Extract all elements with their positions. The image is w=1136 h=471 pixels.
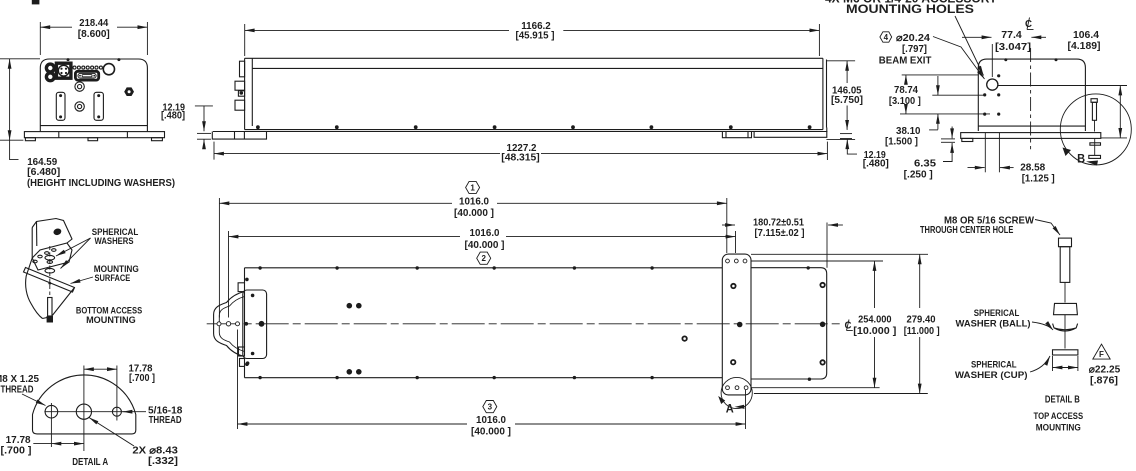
DETAIL A title (72, 457, 108, 468)
svg-text:254.000: 254.000 (858, 315, 892, 326)
mounting surface plate (iso) (24, 268, 75, 319)
screw dots along side view bottom (256, 125, 811, 129)
bottom access mounting label (76, 305, 142, 326)
connector: stacked BNC pair top-left (46, 64, 54, 81)
svg-text:SURFACE: SURFACE (95, 273, 131, 284)
dimension 1016.0 flag 1 (219, 181, 726, 317)
svg-text:77.4: 77.4 (1001, 30, 1022, 41)
dimension 106.4 (998, 30, 1127, 138)
base plate (beam view) (961, 133, 1101, 139)
washer foot (beam view) (962, 138, 973, 141)
svg-text:⌀22.25: ⌀22.25 (1089, 365, 1121, 376)
washers in detail B (1089, 139, 1101, 159)
svg-text:28.58: 28.58 (1020, 162, 1045, 173)
spherical washer cup (top access) (1053, 350, 1078, 355)
svg-text:THREAD: THREAD (149, 415, 182, 426)
svg-text:[4.189]: [4.189] (1068, 41, 1101, 52)
svg-text:BEAM EXIT: BEAM EXIT (879, 56, 932, 67)
detail A foot plate outline (33, 375, 136, 434)
2X dia 8.43 label (detail A) (89, 418, 178, 468)
left end view body (40, 59, 147, 131)
dimension 17.78 bottom (detail A) (1, 421, 84, 457)
top access mounting label (1034, 411, 1084, 433)
side view left foot block (212, 132, 266, 140)
svg-text:218.44: 218.44 (79, 18, 108, 29)
dimension 12.19 (side view right) (826, 138, 855, 140)
accessory holes label (top clipped line) (825, 0, 997, 16)
5/16-18 thread label (detail A) (123, 406, 183, 427)
field ring hole (682, 336, 686, 340)
svg-text:[45.915 ]: [45.915 ] (516, 31, 555, 42)
svg-text:DETAIL B: DETAIL B (1045, 394, 1080, 405)
D-sub connector (75, 71, 98, 80)
svg-text:MOUNTING: MOUNTING (1036, 423, 1081, 434)
svg-text:2: 2 (481, 254, 486, 263)
svg-text:[40.000 ]: [40.000 ] (465, 240, 505, 251)
svg-text:78.74: 78.74 (894, 85, 918, 96)
dimension 78.74 (889, 75, 990, 114)
svg-text:[.250 ]: [.250 ] (904, 170, 933, 181)
svg-text:MOUNTING: MOUNTING (86, 315, 136, 326)
side view right end block (754, 128, 827, 138)
large round port (103, 64, 114, 75)
leader from beam exit label (933, 37, 985, 80)
triangle F flag (1093, 344, 1110, 359)
CL symbol plan (845, 320, 853, 332)
svg-text:[40.000 ]: [40.000 ] (471, 426, 511, 437)
svg-text:1016.0: 1016.0 (476, 415, 506, 426)
svg-text:[11.000 ]: [11.000 ] (904, 326, 940, 337)
dimension 38.10 (885, 76, 986, 148)
screw dots on body top edge (67, 58, 121, 61)
plan centerline (207, 323, 843, 325)
svg-text:[.332]: [.332] (148, 456, 178, 467)
side view base plate rail (213, 131, 828, 133)
dimension 1016.0 flag 3 (238, 330, 746, 438)
svg-text:[8.600]: [8.600] (78, 29, 110, 40)
dimension 17.78 top (detail A) (84, 364, 155, 451)
svg-text:[3.047]: [3.047] (995, 42, 1031, 53)
spherical washer feet (left end view) (25, 138, 162, 141)
svg-text:106.4: 106.4 (1073, 30, 1099, 41)
svg-text:WASHERS: WASHERS (95, 236, 134, 247)
svg-text:[.480]: [.480] (863, 159, 889, 170)
svg-text:B: B (1077, 152, 1085, 166)
svg-text:[.700 ]: [.700 ] (129, 373, 155, 384)
slotted cover plate left (56, 92, 65, 120)
screw (top access) (1059, 238, 1072, 302)
dimension 1227.2 (214, 142, 827, 164)
bracket holes on centerline (217, 321, 264, 327)
dimension 279.40 (751, 254, 940, 393)
svg-text:2X ⌀8.43: 2X ⌀8.43 (132, 445, 178, 456)
svg-text:279.40: 279.40 (907, 315, 936, 326)
svg-text:[6.480]: [6.480] (27, 167, 60, 178)
dimension 254.000 (751, 261, 897, 388)
svg-text:M8 X 1.25: M8 X 1.25 (0, 374, 39, 385)
BNC connector upper (75, 82, 84, 91)
detail circle A (718, 377, 752, 415)
beam exit aperture (987, 79, 998, 90)
dimension 6.35 (904, 127, 955, 181)
svg-text:THREAD: THREAD (1, 385, 34, 396)
spherical washer ball (top access) (1053, 303, 1078, 348)
side view left connectors in profile (235, 61, 245, 110)
screw (iso) (47, 298, 53, 323)
screw dots plan bottom edge (258, 376, 811, 381)
screw dots on beam view top edge (1004, 58, 1057, 61)
svg-text:(HEIGHT INCLUDING WASHERS): (HEIGHT INCLUDING WASHERS) (27, 178, 175, 189)
connector: circular multi-pin (56, 63, 71, 78)
beam exit view body (978, 59, 1085, 131)
svg-text:WASHER (BALL): WASHER (BALL) (956, 318, 1031, 329)
hex flag 4 beam exit (880, 32, 892, 42)
svg-text:1016.0: 1016.0 (470, 228, 500, 239)
base plate (left end view) (24, 132, 164, 138)
svg-text:[40.000 ]: [40.000 ] (454, 208, 494, 219)
svg-text:WASHER (CUP): WASHER (CUP) (955, 370, 1028, 381)
dimension 12.19 base plate (side view left) (161, 102, 213, 148)
spherical washer ball label (956, 308, 1054, 330)
dimension 146.05 (826, 61, 863, 130)
beam exit diameter label (879, 33, 932, 67)
svg-text:F: F (1099, 350, 1104, 359)
svg-text:[.797]: [.797] (902, 44, 927, 55)
svg-text:DETAIL A: DETAIL A (72, 457, 108, 468)
left clamp bracket (214, 292, 245, 357)
svg-text:[1.500 ]: [1.500 ] (885, 137, 918, 148)
dimension 28.58 (968, 133, 1055, 185)
dimension 22.25 cup (1053, 356, 1121, 387)
svg-text:1016.0: 1016.0 (459, 197, 489, 208)
svg-text:THROUGH CENTER HOLE: THROUGH CENTER HOLE (920, 225, 1014, 236)
bottom access mounting isometric sketch (26, 219, 72, 319)
dimension 12.19 (between views, shared) (840, 134, 889, 170)
svg-text:TOP ACCESS: TOP ACCESS (1034, 411, 1084, 422)
clipped label box top-left (32, 0, 40, 4)
side view body (245, 58, 827, 129)
centerline (beam view) (1030, 48, 1032, 149)
spherical washer cup label (955, 356, 1050, 381)
svg-text:MOUNTING HOLES: MOUNTING HOLES (846, 2, 974, 16)
dimension 218.44 (40, 18, 147, 55)
dowel hole pairs in field (347, 303, 362, 375)
svg-text:6.35: 6.35 (914, 159, 936, 170)
left end plate (plan) (243, 278, 267, 366)
svg-text:[.480]: [.480] (161, 111, 185, 122)
svg-text:⌀20.24: ⌀20.24 (896, 33, 930, 44)
svg-text:[3.100 ]: [3.100 ] (889, 96, 921, 107)
BNC connector lower (75, 102, 84, 111)
svg-text:4: 4 (884, 33, 889, 42)
svg-text:[.876]: [.876] (1090, 376, 1118, 387)
svg-text:A: A (726, 402, 734, 416)
screw in detail B (1091, 99, 1097, 132)
slotted cover plate right (94, 92, 103, 120)
dimension 1166.2 (245, 21, 820, 56)
svg-text:[.700 ]: [.700 ] (1, 445, 32, 456)
M8 thread label (detail A) (0, 374, 46, 405)
svg-text:1: 1 (470, 184, 475, 193)
side view middle foot block (722, 132, 751, 138)
screw dots plan top edge (258, 266, 810, 270)
plan view right rounded end (751, 268, 827, 379)
detail circle B (1060, 94, 1131, 166)
detail A holes (44, 403, 125, 421)
dimension 77.4 (962, 30, 1046, 77)
svg-text:[1.125 ]: [1.125 ] (1022, 174, 1055, 185)
plan view main body (245, 268, 723, 378)
mounting hole dots (beam view) (983, 74, 1000, 115)
svg-text:3: 3 (488, 403, 493, 412)
plate holes in right rounded end (820, 283, 826, 365)
mounting plate (plan) (722, 254, 751, 395)
CL symbol top (1025, 18, 1034, 31)
dimension 180.72 (722, 218, 843, 268)
small tabs on plan left edge (238, 283, 249, 367)
DETAIL B title (1045, 394, 1080, 405)
svg-text:[7.115±.02 ]: [7.115±.02 ] (755, 228, 805, 239)
hex purge fitting (124, 87, 134, 96)
mounting surface label (71, 264, 139, 284)
spherical washer stack (iso) (45, 246, 55, 295)
dimension 1016.0 flag 2 (229, 228, 736, 317)
svg-text:[48.315]: [48.315] (501, 152, 540, 163)
spherical washers label (56, 227, 138, 269)
dimension 164.59 height (0, 59, 175, 189)
svg-text:[10.000 ]: [10.000 ] (853, 326, 896, 337)
row of 7 vent holes (73, 66, 102, 69)
svg-text:[5.750]: [5.750] (831, 95, 863, 106)
M8 screw label (top access) (920, 216, 1060, 236)
svg-text:38.10: 38.10 (896, 126, 921, 137)
leader from mounting holes label (955, 16, 984, 76)
